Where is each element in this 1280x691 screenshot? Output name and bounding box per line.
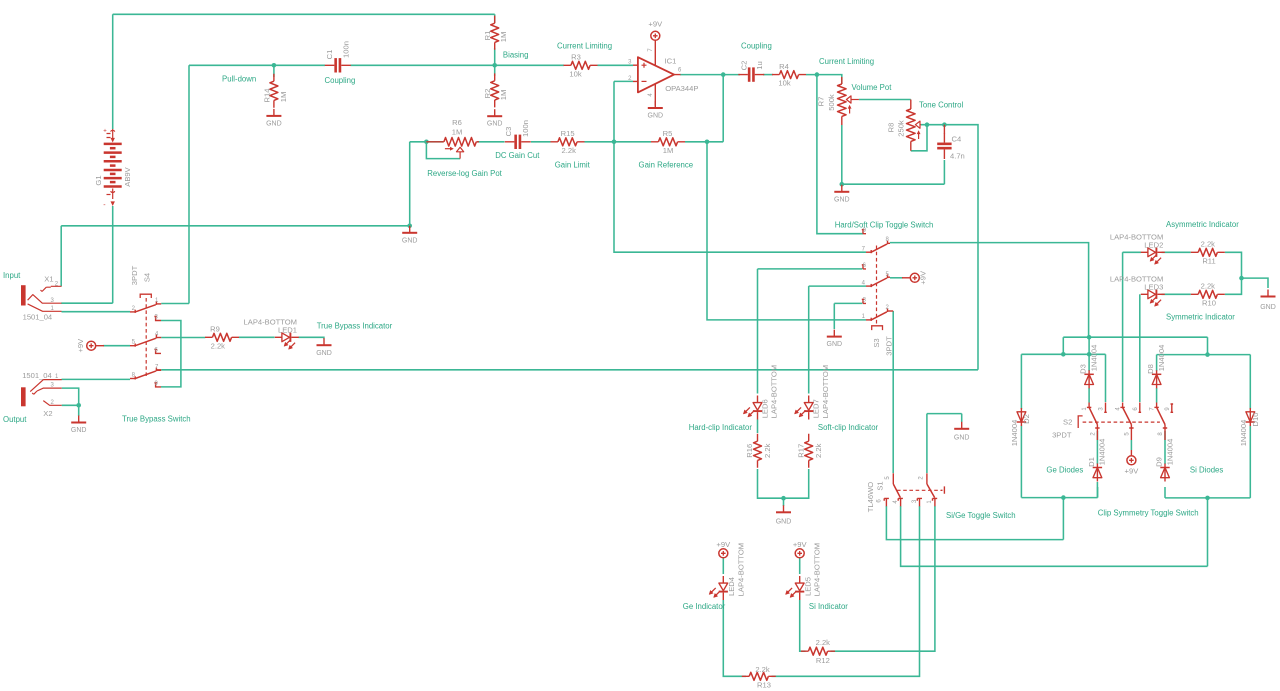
svg-text:Symmetric Indicator: Symmetric Indicator <box>1166 312 1235 321</box>
svg-text:Hard/Soft Clip Toggle Switch: Hard/Soft Clip Toggle Switch <box>835 221 934 230</box>
node junction R6 left <box>424 140 429 145</box>
svg-text:+9V: +9V <box>1125 467 1140 476</box>
ground GND R2 <box>487 109 503 128</box>
svg-text:R10: R10 <box>1202 298 1216 307</box>
wire <box>927 413 962 415</box>
svg-text:Ge Diodes: Ge Diodes <box>1046 465 1083 474</box>
wire <box>911 125 927 151</box>
svg-text:1N4004: 1N4004 <box>1165 439 1174 466</box>
resistor R9 <box>205 325 239 351</box>
wire <box>757 269 759 394</box>
wire <box>890 277 903 279</box>
wire <box>61 225 410 227</box>
power +9V LED5 <box>793 540 808 558</box>
node junction C4 top <box>942 122 947 127</box>
wire <box>1164 487 1166 498</box>
wire <box>1156 355 1158 371</box>
svg-text:R6: R6 <box>452 118 462 127</box>
wire <box>614 80 633 82</box>
svg-text:2.2k: 2.2k <box>562 146 577 155</box>
connector X2 output jack 1501_04 <box>22 371 62 418</box>
svg-text:Input: Input <box>3 271 21 280</box>
svg-text:1u: 1u <box>755 61 764 69</box>
svg-text:GND: GND <box>316 350 332 357</box>
wire <box>1062 337 1064 354</box>
wire <box>161 321 181 387</box>
switch S4 3PDT true bypass <box>130 265 161 386</box>
wire <box>1021 497 1097 499</box>
diode D3 1N4004 <box>1079 345 1099 389</box>
ground GND R14 <box>266 109 282 128</box>
svg-text:LED5: LED5 <box>803 577 812 596</box>
net label Input <box>3 271 21 280</box>
svg-text:OPA344P: OPA344P <box>665 84 698 93</box>
wire <box>494 14 496 23</box>
wire <box>1225 278 1242 294</box>
wire <box>833 303 835 329</box>
net label Current Limiting <box>819 57 874 66</box>
wire <box>62 388 79 405</box>
wire <box>758 469 809 498</box>
wire <box>1020 354 1022 409</box>
resistor R11 <box>1191 240 1225 266</box>
node junction R7 GND <box>840 182 845 187</box>
svg-text:2.2k: 2.2k <box>1201 282 1216 291</box>
svg-text:Si/Ge Toggle Switch: Si/Ge Toggle Switch <box>946 511 1016 520</box>
svg-text:Output: Output <box>3 415 27 424</box>
resistor R17 <box>796 434 823 468</box>
svg-text:2.2k: 2.2k <box>814 443 823 458</box>
svg-text:D2: D2 <box>1022 414 1031 424</box>
svg-text:C3: C3 <box>504 127 513 137</box>
wire <box>1249 426 1251 498</box>
potentiometer R6 1M <box>426 118 479 159</box>
svg-text:S1: S1 <box>876 481 885 490</box>
switch S1 TL46WO Si/Ge toggle <box>866 473 945 512</box>
diode D1 1N4004 <box>1087 439 1107 482</box>
wire <box>817 75 863 234</box>
wire <box>680 74 740 76</box>
ground GND IC1 <box>648 101 664 119</box>
svg-text:1N4004: 1N4004 <box>1089 345 1098 372</box>
wire <box>598 64 634 66</box>
wire <box>299 337 324 338</box>
svg-text:10k: 10k <box>569 69 581 78</box>
svg-text:C2: C2 <box>740 61 749 71</box>
capacitor C2 1u <box>738 61 764 82</box>
wire <box>808 286 810 393</box>
wire <box>1021 353 1105 355</box>
svg-text:1N4004: 1N4004 <box>1239 420 1248 447</box>
svg-text:GND: GND <box>776 518 792 525</box>
wire <box>1130 440 1132 450</box>
wire <box>723 600 746 676</box>
svg-text:LED2: LED2 <box>1144 241 1163 250</box>
svg-text:250k: 250k <box>896 120 905 137</box>
wire <box>112 14 114 129</box>
svg-text:1N4004: 1N4004 <box>1098 439 1107 466</box>
node junction feedback <box>612 140 617 145</box>
net label Gain Reference <box>639 160 694 169</box>
svg-text:X1: X1 <box>44 274 53 283</box>
wire <box>1063 336 1207 338</box>
wire <box>763 74 773 76</box>
wire <box>834 302 862 304</box>
wire <box>189 64 325 66</box>
svg-text:Si Diodes: Si Diodes <box>1190 465 1223 474</box>
power +9V LED4 <box>716 540 731 558</box>
net label Hard/Soft Clip Toggle Switch <box>835 221 934 230</box>
wire <box>409 142 411 226</box>
node junction indicators GND <box>781 496 786 501</box>
svg-text:GND: GND <box>954 435 970 442</box>
wire <box>1162 293 1191 295</box>
svg-text:True Bypass Switch: True Bypass Switch <box>122 414 191 423</box>
wire <box>477 141 505 143</box>
node junction R8 wiper tie <box>925 122 930 127</box>
svg-text:R13: R13 <box>757 681 771 690</box>
svg-text:R5: R5 <box>663 129 673 138</box>
net label Coupling <box>741 42 772 51</box>
node junction R4/S3 pin9 <box>815 72 820 77</box>
wire <box>1088 388 1090 403</box>
node junction right link <box>1205 352 1210 357</box>
svg-text:Gain Reference: Gain Reference <box>639 160 694 169</box>
svg-text:1M: 1M <box>663 146 674 155</box>
wire <box>1207 498 1209 566</box>
node junction pulldown GND <box>407 224 412 229</box>
svg-text:Volume Pot: Volume Pot <box>852 83 893 92</box>
wire <box>1122 252 1124 402</box>
wire <box>494 48 496 65</box>
op-amp IC1 OPA344P <box>628 40 698 105</box>
net label DC Gain Cut <box>495 151 540 160</box>
wire <box>614 81 866 252</box>
svg-text:2.2k: 2.2k <box>211 341 226 350</box>
svg-text:True Bypass Indicator: True Bypass Indicator <box>317 321 393 330</box>
LED4 LAP4-BOTTOM Ge indicator <box>709 543 745 600</box>
node junction top link <box>1087 335 1092 340</box>
svg-text:1M: 1M <box>499 32 508 43</box>
ground GND indicators <box>776 498 792 525</box>
svg-text:1N4004: 1N4004 <box>1157 345 1166 372</box>
connector X1 input jack 1501_04 <box>23 274 62 321</box>
svg-text:Si Indicator: Si Indicator <box>809 602 848 611</box>
svg-text:2.2k: 2.2k <box>763 443 772 458</box>
wire <box>809 285 866 287</box>
wire <box>1105 354 1107 402</box>
svg-text:Current Limiting: Current Limiting <box>819 57 874 66</box>
LED2 LAP4-BOTTOM asymmetric <box>1110 233 1165 265</box>
wire <box>1097 487 1099 498</box>
svg-text:3PDT: 3PDT <box>1052 431 1072 440</box>
wire <box>1207 337 1209 354</box>
wire <box>1062 498 1064 540</box>
svg-text:GND: GND <box>487 121 503 128</box>
svg-text:GND: GND <box>71 427 87 434</box>
LED3 LAP4-BOTTOM symmetric <box>1110 275 1165 307</box>
svg-text:D9: D9 <box>1155 457 1164 467</box>
ground GND X2 <box>71 405 87 434</box>
svg-text:3PDT: 3PDT <box>885 336 894 356</box>
svg-text:10k: 10k <box>778 79 790 88</box>
resistor R16 <box>745 434 772 468</box>
svg-text:GND: GND <box>648 112 664 119</box>
resistor R10 <box>1191 282 1225 308</box>
svg-text:GND: GND <box>827 341 843 348</box>
svg-text:500k: 500k <box>827 94 836 111</box>
svg-text:G1: G1 <box>94 175 103 185</box>
net label Output <box>3 415 27 424</box>
svg-text:1M: 1M <box>279 92 288 103</box>
power +9V S4 <box>76 338 104 353</box>
net label Ge Indicator <box>683 602 726 611</box>
net label Tone Control <box>919 101 963 110</box>
svg-text:1N4004: 1N4004 <box>1010 420 1019 447</box>
diode D9 1N4004 <box>1155 439 1175 482</box>
svg-text:1501_04: 1501_04 <box>23 313 53 322</box>
net label Volume Pot <box>852 83 893 92</box>
wire <box>1165 497 1250 499</box>
wire <box>772 506 920 676</box>
svg-text:IC1: IC1 <box>665 57 677 66</box>
wire <box>60 226 62 286</box>
wire <box>943 160 945 184</box>
wire <box>757 420 759 434</box>
svg-text:R16: R16 <box>745 444 754 458</box>
svg-text:D3: D3 <box>1079 364 1088 374</box>
svg-text:TL46WO: TL46WO <box>866 482 875 512</box>
wire <box>1249 355 1251 409</box>
wire <box>61 302 112 304</box>
svg-text:R17: R17 <box>796 444 805 458</box>
ground GND R7 <box>834 185 850 204</box>
resistor R12 <box>801 638 835 665</box>
wire <box>1242 278 1269 288</box>
net label Si Diodes <box>1190 465 1223 474</box>
node junction R5 right <box>705 140 710 145</box>
capacitor C4 4.7n <box>937 125 965 161</box>
capacitor C3 100n <box>504 120 531 149</box>
wire <box>799 558 801 574</box>
ground GND LED2/3 <box>1260 290 1276 311</box>
ground GND LED1 <box>316 338 332 357</box>
switch S3 3PDT hard/soft clip <box>862 228 894 356</box>
svg-text:100n: 100n <box>342 41 351 58</box>
svg-text:R15: R15 <box>561 129 575 138</box>
svg-text:+9V: +9V <box>716 540 731 549</box>
svg-text:+9V: +9V <box>918 270 927 285</box>
svg-text:Gain Limit: Gain Limit <box>555 160 591 169</box>
svg-text:S2: S2 <box>1063 418 1072 427</box>
battery G1 AB9V <box>94 129 132 210</box>
svg-text:1501_04: 1501_04 <box>22 371 52 380</box>
wire <box>531 141 551 143</box>
net label Asymmetric Indicator <box>1166 220 1239 229</box>
resistor R15 <box>551 129 585 155</box>
net label Reverse-log Gain Pot <box>427 169 502 178</box>
LED6 LAP4-BOTTOM hard-clip <box>743 365 778 420</box>
node junction opamp out <box>721 72 726 77</box>
net label True Bypass Indicator <box>317 321 393 330</box>
wire <box>188 65 190 303</box>
capacitor C1 100n <box>325 41 351 72</box>
svg-text:2.2k: 2.2k <box>755 665 770 674</box>
wire <box>1123 251 1141 253</box>
wire <box>886 506 1063 540</box>
wire <box>1139 294 1141 402</box>
wire <box>1162 251 1191 253</box>
net label Current Limiting <box>557 42 612 51</box>
svg-text:D8: D8 <box>1146 364 1155 374</box>
wire <box>685 141 723 143</box>
switch S2 3PDT clip symmetry <box>1052 403 1173 441</box>
wire <box>859 99 911 101</box>
svg-text:LED1: LED1 <box>278 325 297 334</box>
svg-text:1M: 1M <box>499 90 508 101</box>
svg-text:LAP4-BOTTOM: LAP4-BOTTOM <box>736 543 745 596</box>
wire <box>161 303 189 305</box>
svg-text:LAP4-BOTTOM: LAP4-BOTTOM <box>770 365 779 418</box>
svg-text:C4: C4 <box>952 135 962 144</box>
net label Si Indicator <box>809 602 848 611</box>
wire <box>800 600 806 651</box>
wire <box>585 141 652 143</box>
svg-text:GND: GND <box>266 120 282 127</box>
node junction X2 GND <box>76 403 81 408</box>
wire <box>161 337 205 339</box>
power +9V S2 <box>1125 450 1140 476</box>
wire <box>273 65 275 77</box>
node junction Ge bottom <box>1061 495 1066 500</box>
wire <box>426 142 460 159</box>
node junction LED GND <box>1239 276 1244 281</box>
svg-text:+9V: +9V <box>648 19 663 28</box>
svg-text:X2: X2 <box>43 409 52 418</box>
node junction R1/R2/bias <box>492 63 497 68</box>
svg-text:LAP4-BOTTOM: LAP4-BOTTOM <box>821 365 830 418</box>
wire <box>113 13 495 15</box>
net label Clip Symmetry Toggle Switch <box>1098 509 1199 518</box>
wire <box>62 404 79 406</box>
svg-text:1M: 1M <box>452 128 463 137</box>
wire <box>103 345 130 347</box>
svg-text:100n: 100n <box>521 120 530 137</box>
power +9V S3 <box>902 270 927 285</box>
LED1 LAP4-BOTTOM true bypass indicator <box>244 317 299 349</box>
resistor R14 <box>262 74 288 108</box>
svg-text:R4: R4 <box>779 62 789 71</box>
wire <box>831 506 935 651</box>
svg-text:R8: R8 <box>886 123 895 133</box>
svg-text:Soft-clip Indicator: Soft-clip Indicator <box>818 423 879 432</box>
wire <box>62 378 131 380</box>
diode D10 1N4004 <box>1239 408 1260 446</box>
svg-text:R12: R12 <box>816 656 830 665</box>
wire <box>410 141 443 143</box>
resistor R2 <box>483 73 508 107</box>
node junction second row left <box>1061 352 1066 357</box>
svg-text:D1: D1 <box>1087 457 1096 467</box>
wire <box>758 268 863 270</box>
node junction Si bottom <box>1205 496 1210 501</box>
wire <box>842 183 945 185</box>
wire <box>1157 354 1251 356</box>
svg-text:Current Limiting: Current Limiting <box>557 42 612 51</box>
svg-text:GND: GND <box>402 237 418 244</box>
svg-text:Coupling: Coupling <box>741 42 772 51</box>
svg-text:R2: R2 <box>483 89 492 99</box>
svg-text:D10: D10 <box>1251 413 1260 427</box>
wire <box>1156 388 1158 403</box>
svg-text:4.7n: 4.7n <box>950 152 965 161</box>
svg-text:2.2k: 2.2k <box>816 638 831 647</box>
node junction C1/R14 <box>272 63 277 68</box>
svg-text:S3: S3 <box>872 338 881 347</box>
wire <box>961 414 963 422</box>
wire <box>239 336 275 338</box>
svg-text:LAP4-BOTTOM: LAP4-BOTTOM <box>813 543 822 596</box>
net label True Bypass Switch <box>122 414 191 423</box>
wire <box>161 369 978 371</box>
net label Soft-clip Indicator <box>818 423 879 432</box>
wire <box>1225 252 1242 278</box>
wire <box>926 414 928 474</box>
wire <box>1020 426 1022 498</box>
net label Biasing <box>503 50 529 59</box>
resistor R3 <box>564 53 598 79</box>
svg-text:R7: R7 <box>817 97 826 107</box>
net label Si/Ge Toggle Switch <box>946 511 1016 520</box>
wire <box>1096 431 1098 464</box>
net label Hard-clip Indicator <box>689 423 753 432</box>
svg-text:Pull-down: Pull-down <box>222 75 256 84</box>
svg-text:+9V: +9V <box>76 338 85 353</box>
wire <box>722 75 724 142</box>
ground GND S3 <box>827 330 843 349</box>
svg-text:R1: R1 <box>483 31 492 41</box>
svg-text:AB9V: AB9V <box>123 166 132 186</box>
net label Pull-down <box>222 75 256 84</box>
power +9V IC1 <box>648 19 663 40</box>
net label Ge Diodes <box>1046 465 1083 474</box>
wire <box>841 125 843 184</box>
wire <box>62 311 131 313</box>
wire <box>707 142 866 320</box>
svg-text:Tone Control: Tone Control <box>919 101 963 110</box>
svg-text:LED4: LED4 <box>727 577 736 596</box>
svg-text:Biasing: Biasing <box>503 50 529 59</box>
svg-text:+: + <box>103 129 107 135</box>
resistor R5 <box>651 129 685 155</box>
ground GND pulldown <box>402 226 418 245</box>
svg-text:R11: R11 <box>1202 256 1215 265</box>
wire <box>722 558 724 574</box>
svg-text:+9V: +9V <box>793 540 808 549</box>
wire <box>892 311 894 473</box>
wire <box>1088 354 1090 371</box>
svg-text:S4: S4 <box>143 273 152 282</box>
svg-text:GND: GND <box>834 196 850 203</box>
net label Coupling <box>325 76 356 85</box>
resistor R13 <box>742 665 776 690</box>
wire <box>112 206 114 303</box>
potentiometer R7 500k <box>817 77 859 125</box>
svg-text:R14: R14 <box>262 89 271 103</box>
diode D8 1N4004 <box>1146 345 1166 389</box>
svg-text:Ge Indicator: Ge Indicator <box>683 602 726 611</box>
wire <box>890 243 1089 338</box>
